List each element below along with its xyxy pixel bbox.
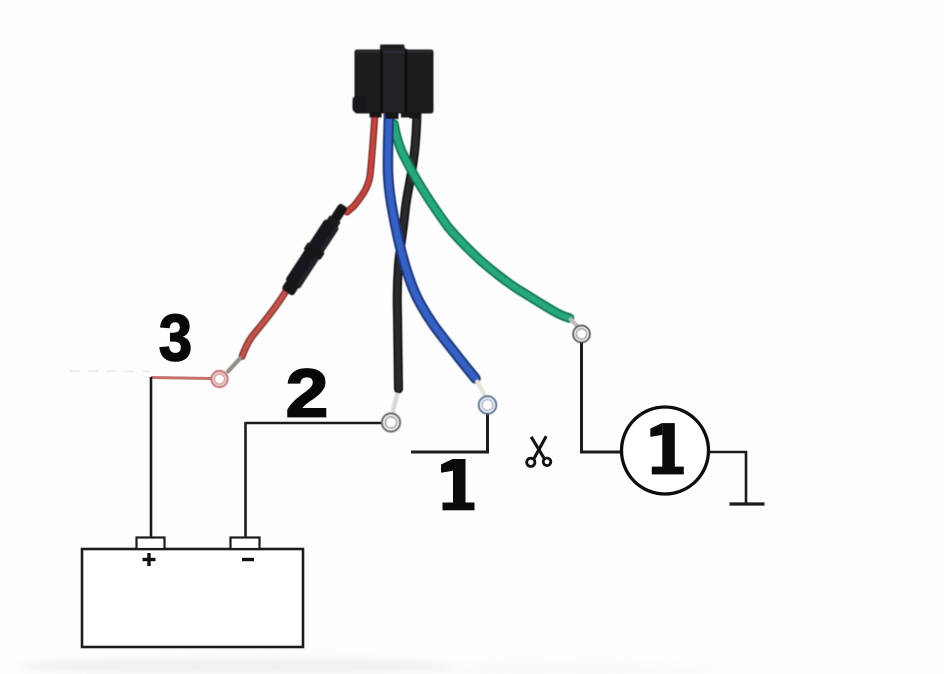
wire: horn circle to ground [709, 452, 746, 504]
label 3 [159, 302, 192, 375]
battery terminal - post [231, 538, 260, 550]
wire red lower (fuse holder to ring terminal 3) [242, 291, 286, 357]
wire: stub from blue ring terminal 1 [411, 413, 488, 452]
wire: battery + lead (vertical) [150, 377, 153, 538]
faint photo shadow bottom [20, 658, 450, 674]
wire red upper (relay 30 to fuse holder) [347, 114, 375, 212]
wire: battery - lead (vertical) [244, 422, 247, 538]
wire: from green ring terminal to horn circle [582, 341, 622, 452]
crimp sleeve on red wire [228, 359, 240, 372]
battery + sign [143, 553, 156, 566]
svg-text:2: 2 [286, 356, 329, 432]
horn circle node 1 [622, 407, 709, 494]
crimp sleeve on green wire [571, 320, 578, 327]
ring terminal green wire [573, 326, 590, 343]
wire black (relay 87/86 to ring terminal 2) [397, 112, 417, 389]
wire: link from ring 2 to battery - lead [246, 422, 384, 425]
battery [82, 538, 303, 648]
scissors (cut mark) [527, 436, 551, 466]
relay socket connector [353, 45, 434, 120]
crimp sleeve on black wire [393, 395, 397, 411]
svg-text:3: 3 [159, 302, 192, 375]
label 1 inside horn circle [650, 423, 684, 475]
ring terminal 1 (blue wire) [479, 396, 496, 413]
ring terminal 3 (red, battery +) [212, 371, 228, 387]
crimp sleeve on blue wire [478, 382, 485, 395]
battery - sign [242, 558, 254, 561]
label 2 [286, 356, 329, 432]
wire blue (relay trigger to ring terminal 1) [388, 111, 476, 379]
battery terminal + post [137, 538, 165, 550]
label 1 (below cut wire bracket) [441, 459, 475, 511]
fuse holder F1 inline on red wire [279, 200, 353, 298]
wire green (relay output) [394, 124, 570, 318]
ground symbol [730, 502, 765, 505]
wire: red link from ring 3 to battery + lead corner [151, 378, 212, 379]
ring terminal 2 (black wire, battery -) [382, 414, 400, 432]
faint ghost line left of node 3 [70, 370, 150, 373]
